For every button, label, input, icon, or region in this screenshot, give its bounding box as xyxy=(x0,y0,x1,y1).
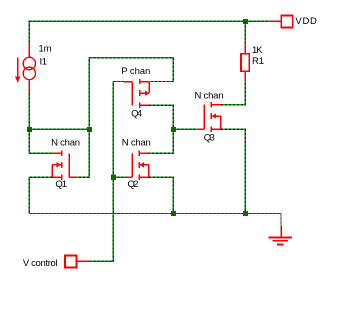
wire ground rail xyxy=(29,213,281,215)
wire I1 top drop xyxy=(28,21,30,44)
wire Q3 source to rail xyxy=(221,129,246,213)
svg-text:Q4: Q4 xyxy=(131,108,142,119)
wire I1 to node A xyxy=(28,93,30,129)
wire node A to node B xyxy=(29,128,89,130)
wire Q2 gate stub from junction xyxy=(113,176,126,178)
wire A down to Q1 drain xyxy=(29,129,52,153)
wire Q1 source to ground rail xyxy=(29,177,52,213)
svg-text:V control: V control xyxy=(23,258,58,269)
wire Q3 gate stub xyxy=(173,128,197,130)
svg-text:N chan: N chan xyxy=(122,138,151,149)
svg-text:N chan: N chan xyxy=(195,90,224,101)
junction V control node xyxy=(111,175,116,180)
wire ground stem xyxy=(280,214,282,226)
junction Q2 source at rail xyxy=(171,211,176,216)
transistor Q2 (N-channel) xyxy=(126,151,149,180)
svg-text:R1: R1 xyxy=(252,56,264,67)
terminal V control xyxy=(65,256,90,268)
svg-text:Q1: Q1 xyxy=(55,179,67,190)
svg-text:P chan: P chan xyxy=(121,66,150,77)
junction node A xyxy=(27,127,32,132)
wire top rail VDD xyxy=(29,20,269,22)
transistor Q4 (P-channel) xyxy=(124,79,150,108)
junction R1 top xyxy=(243,19,248,24)
wire Q4 source to Q2 drain (cascode node) xyxy=(149,105,174,153)
ground xyxy=(269,226,293,245)
svg-text:VDD: VDD xyxy=(295,16,317,27)
svg-text:Q2: Q2 xyxy=(128,179,139,190)
junction Q3 gate node xyxy=(171,127,176,132)
wire Q3 drain to R1 xyxy=(221,81,246,105)
wire R1 top stub xyxy=(244,21,246,44)
terminal VDD xyxy=(269,15,293,27)
svg-text:1K: 1K xyxy=(252,45,263,56)
junction Q3 source at rail xyxy=(243,211,248,216)
wire Q2 source to rail xyxy=(149,177,174,213)
junction node B xyxy=(87,127,92,132)
svg-text:Q3: Q3 xyxy=(204,133,215,144)
wire B down to Q1 gate xyxy=(77,129,89,177)
wire Q4 gate from x113 column xyxy=(90,82,123,262)
transistor Q3 (N-channel) xyxy=(197,102,220,132)
svg-text:1m: 1m xyxy=(39,44,52,55)
resistor R1 xyxy=(241,44,249,81)
svg-text:N chan: N chan xyxy=(51,138,80,149)
svg-text:I1: I1 xyxy=(40,57,48,68)
transistor Q1 (N-channel, mirrored) xyxy=(52,151,77,180)
wire B up to Q4 drain loop xyxy=(89,58,173,130)
current source I1 xyxy=(15,44,36,94)
